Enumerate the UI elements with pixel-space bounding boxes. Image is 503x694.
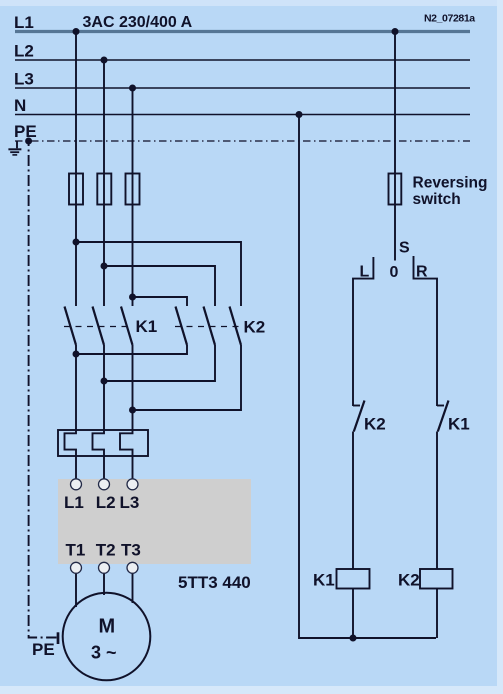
svg-text:N2_07281a: N2_07281a — [424, 13, 475, 25]
svg-text:3 ~: 3 ~ — [91, 643, 117, 663]
svg-text:L3: L3 — [14, 70, 34, 89]
svg-text:L1: L1 — [64, 493, 84, 512]
svg-text:T2: T2 — [96, 541, 116, 560]
svg-text:K2: K2 — [398, 571, 420, 590]
svg-text:N: N — [14, 96, 26, 115]
svg-text:T1: T1 — [66, 541, 86, 560]
svg-text:5TT3 440: 5TT3 440 — [178, 573, 251, 592]
svg-text:S: S — [399, 240, 410, 257]
svg-text:K2: K2 — [364, 415, 386, 434]
svg-text:switch: switch — [413, 191, 461, 208]
svg-text:3AC 230/400 A: 3AC 230/400 A — [83, 14, 193, 31]
svg-text:L: L — [360, 264, 370, 281]
svg-text:PE: PE — [14, 122, 37, 141]
svg-text:L3: L3 — [120, 493, 140, 512]
svg-text:T3: T3 — [121, 541, 141, 560]
svg-text:K1: K1 — [136, 317, 158, 336]
svg-text:R: R — [416, 264, 428, 281]
svg-text:Reversing: Reversing — [413, 175, 488, 192]
svg-text:L2: L2 — [96, 493, 116, 512]
svg-text:K1: K1 — [313, 571, 335, 590]
svg-text:L2: L2 — [14, 42, 34, 61]
svg-text:K1: K1 — [448, 415, 470, 434]
svg-text:M: M — [99, 616, 116, 638]
svg-text:K2: K2 — [244, 318, 266, 337]
svg-text:0: 0 — [390, 264, 399, 281]
svg-text:L1: L1 — [14, 13, 34, 32]
svg-text:PE: PE — [32, 640, 55, 659]
